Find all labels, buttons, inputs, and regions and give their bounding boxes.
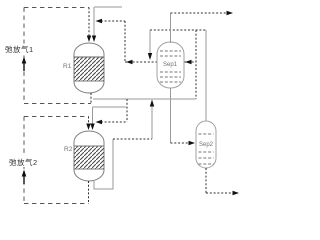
wire: left long-dash vertical x=24 upper [23,8,25,104]
wire: gray horizontal y=107 [93,106,128,108]
wire: dashed horizontal y=193 product 2 [206,192,234,194]
arrow down into R1 top (outer) [87,36,91,43]
arrow up joining y=99 line [150,100,154,107]
wire: Sep1 bottom line gray [170,88,172,143]
wire: Sep1 vapour product dashed y=13 [171,12,229,14]
wire: dashed horizontal y=143 to Sep2 [171,142,190,144]
svg-text:R1: R1 [63,63,72,70]
arrow down into R2 top (inner) [90,124,94,131]
arrow right product 2 [233,191,240,195]
wire: gray horizontal y=7 stub [94,6,122,8]
wire: R1 bottom nozzle dashed [90,93,92,104]
svg-text:Sep2: Sep2 [199,142,214,148]
svg-text:弛放气2: 弛放气2 [9,157,38,167]
wire: dashed horizontal y=62 left of Sep1 [125,61,157,63]
wire: long-dash horizontal y=103.5 to R1 bottom nozzle [24,103,91,105]
wire: gray vertical x=152 up with arrow [151,106,153,139]
wire: long-dash horizontal y=203.5 [24,203,89,205]
wire: top long-dash horizontal y=7.5 [24,7,89,9]
Sep1 tray lines [160,51,181,82]
wire: left long-dash vertical x=24 lower [23,117,25,204]
wire: dashed horizontal y=62 right of Sep1 [184,61,196,63]
arrow left at (127,62) [126,60,133,64]
svg-text:Sep1: Sep1 [163,62,178,68]
wire: dashed horizontal y=30 [150,29,206,31]
wire: dashed horizontal y=139 [113,138,152,140]
label 弛放气2 [8,157,41,168]
wire: dashed horizontal y=122 [97,121,127,123]
arrow down into R2 top (outer) [86,124,90,131]
arrow up on purge riser 2 [22,170,27,177]
arrow left at (96,21) [96,19,103,23]
wire: gray path R2 outlet [94,139,113,189]
wire: riser x=196 up [195,30,197,99]
wire: dashed vertical x=125 [124,21,126,62]
Sep2 tray lines [199,134,214,164]
wire: gray vertical x=92.5 into R2 top [92,107,94,124]
svg-text:弛放气1: 弛放气1 [5,44,34,54]
wire: R2 bottom nozzle dashed [88,181,90,204]
wire: long-dash horizontal y=116.5 [24,116,89,118]
arrow left into Sep1 right side [185,60,192,64]
svg-text:R2: R2 [64,146,73,153]
arrow down into R1 top (inner) [92,36,96,43]
wire: dashed vertical x=127 from y=99 [126,99,128,122]
wire: Sep1 top nozzle gray [170,13,172,43]
arrow right into Sep2 left side [189,141,196,145]
wire: dashed horizontal y=21 recycle into R1 [97,20,125,22]
arrow left at (96,122) [96,120,103,124]
wire: gray vertical x=206 from y=30 to Sep2 top [205,30,207,121]
wire: Sep2 bottom dashed vertical [205,168,207,193]
arrow up on purge riser 1 [22,57,27,64]
wire: gray vertical x=150 with down arrow [149,30,151,53]
label 弛放气1 [4,44,37,55]
wire: dashed vertical x=89 into R1 top [88,8,90,37]
arrow right product 1 [227,11,234,15]
wire: gray vertical x=94 into R1 top [93,7,95,36]
wire: dashed vertical x=88.5 from y=116.5 into R2 top [88,117,90,125]
